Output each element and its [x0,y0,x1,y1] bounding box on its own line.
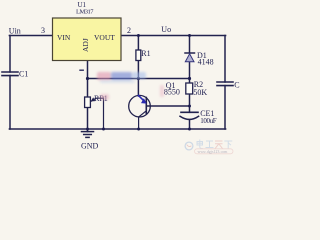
svg-text:Uo: Uo [161,25,171,34]
svg-text:100uF: 100uF [200,117,217,125]
svg-text:VIN: VIN [57,33,71,42]
svg-text:ADJ: ADJ [81,38,90,52]
svg-text:www.dgjs123.com: www.dgjs123.com [198,150,228,154]
svg-text:Uin: Uin [9,27,21,36]
svg-text:50K: 50K [193,88,207,97]
svg-text:VOUT: VOUT [94,33,115,42]
svg-text:4148: 4148 [198,58,214,67]
svg-text:3: 3 [41,26,45,35]
svg-text:R1: R1 [141,49,150,58]
svg-text:2: 2 [127,26,131,35]
svg-text:C1: C1 [19,69,28,78]
svg-text:C: C [234,81,239,90]
svg-text:8550: 8550 [164,88,180,97]
svg-text:LM317: LM317 [76,9,94,16]
svg-text:GND: GND [81,142,99,151]
